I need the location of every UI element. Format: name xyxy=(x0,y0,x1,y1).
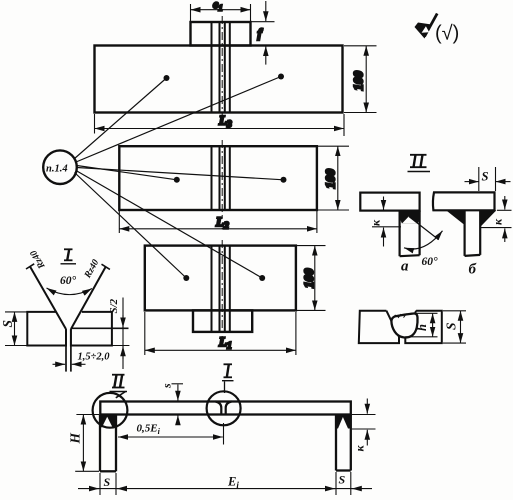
dimension H xyxy=(75,415,99,472)
dimension L3 xyxy=(95,114,345,136)
T-joint b: stem xyxy=(464,210,466,256)
svg-text:100: 100 xyxy=(323,169,338,189)
svg-text:0,5Ei: 0,5Ei xyxy=(137,423,161,437)
svg-text:к: к xyxy=(353,445,367,452)
weld seam lines 1 xyxy=(212,22,230,113)
assembly: top bar xyxy=(100,402,351,472)
bevel end ticks xyxy=(26,264,34,269)
dimension 1,5-2,0 root gap xyxy=(53,363,86,365)
svg-text:п.1.4: п.1.4 xyxy=(46,164,68,175)
svg-text:S: S xyxy=(104,475,111,489)
T-joint a: weld fill xyxy=(400,211,420,224)
weld bead detail: left plate xyxy=(359,311,442,343)
detail II label (top-right) xyxy=(408,155,431,172)
svg-text:e1: e1 xyxy=(213,0,223,13)
svg-text:100: 100 xyxy=(351,71,366,91)
detail I: V-groove cross-section xyxy=(26,264,129,372)
weld seam lines 2 xyxy=(212,146,230,210)
dimension h xyxy=(405,313,437,337)
dimension s (bar thickness) xyxy=(172,384,184,425)
dimension 100 plate2 xyxy=(318,146,349,210)
dimension L2 xyxy=(119,211,317,233)
T-joint a: flange xyxy=(360,193,419,257)
T-joint a: stem xyxy=(399,211,401,257)
leader lines xyxy=(74,77,284,279)
svg-text:h: h xyxy=(415,324,429,331)
assembly: right weld xyxy=(336,415,351,429)
svg-text:60°: 60° xyxy=(422,256,439,268)
dimension L1 xyxy=(145,312,296,355)
root face line S/2 level xyxy=(71,327,129,329)
svg-text:(√): (√) xyxy=(435,23,459,45)
right bevel line xyxy=(71,267,106,329)
svg-text:S: S xyxy=(339,473,346,487)
svg-text:100: 100 xyxy=(301,268,316,288)
T-joint b: flange xyxy=(433,192,495,256)
dimension S (joint b) xyxy=(465,167,511,191)
svg-text:к: к xyxy=(369,219,383,226)
svg-text:s: s xyxy=(160,383,174,389)
center line 2 xyxy=(221,140,223,216)
svg-text:б: б xyxy=(469,262,477,278)
weld bead detail: right plate xyxy=(405,311,442,343)
butt joint inside circle I xyxy=(216,402,232,415)
detail circle II xyxy=(93,393,128,428)
svg-text:к: к xyxy=(491,218,505,225)
dimension S/2 xyxy=(112,298,129,370)
left plate of groove xyxy=(27,312,66,346)
dimension 100 plate3 xyxy=(297,246,326,311)
dimension 100 plate1 xyxy=(344,46,377,113)
svg-text:S/2: S/2 xyxy=(108,298,120,313)
callout circle p.1.4 xyxy=(43,150,77,184)
svg-text:S: S xyxy=(482,169,489,183)
weld cap 1 xyxy=(191,22,251,46)
svg-text:60°: 60° xyxy=(60,275,77,287)
left bevel line xyxy=(30,267,66,330)
dimension f xyxy=(251,1,275,65)
svg-text:S: S xyxy=(444,322,459,330)
surface finish symbol xyxy=(415,14,460,45)
T-joint a: bevel notch xyxy=(402,216,417,223)
weld cap 3 (below) xyxy=(193,310,252,332)
plate specimen 3 (bottom) xyxy=(145,240,296,337)
svg-text:а: а xyxy=(401,259,409,275)
dimension S (detail I) xyxy=(5,312,27,346)
dimension S (bead detail) xyxy=(443,311,466,343)
dimension e1 xyxy=(191,4,251,21)
dimension k (joint a) xyxy=(372,197,401,247)
dimension K (right leg) xyxy=(352,399,376,446)
T-joint b: right weld fillet xyxy=(480,210,496,227)
60 degree angle (joint a) xyxy=(404,217,443,250)
leader dots xyxy=(164,74,287,282)
center line 3 xyxy=(221,240,223,337)
root gap lines xyxy=(65,329,67,372)
weld seam lines 3 xyxy=(212,246,230,332)
plate specimen 2 (middle) xyxy=(119,140,317,216)
T-joint b: left weld fillet xyxy=(446,210,465,225)
bead texture strokes xyxy=(393,314,407,319)
assembly: left leg xyxy=(99,415,101,472)
dimension k (joint b) xyxy=(481,196,512,242)
plate specimen 1 (top) xyxy=(95,16,343,118)
60 degree arc xyxy=(47,288,93,295)
assembly: left weld xyxy=(100,415,116,428)
right plate of groove xyxy=(71,312,112,346)
weld bead xyxy=(391,313,417,337)
bottom dimension line xyxy=(78,472,372,495)
center line 1 xyxy=(221,16,223,118)
detail circle I xyxy=(207,391,241,425)
svg-text:1,5÷2,0: 1,5÷2,0 xyxy=(78,352,111,363)
svg-text:H: H xyxy=(68,433,83,445)
assembly: right leg xyxy=(335,415,337,471)
extension lines under legs xyxy=(99,473,101,495)
detail I label xyxy=(61,249,77,263)
label I above circle I xyxy=(222,364,234,393)
dimension 0,5Ei xyxy=(118,423,224,445)
label II above circle II xyxy=(110,375,128,398)
svg-text:S: S xyxy=(0,320,15,328)
